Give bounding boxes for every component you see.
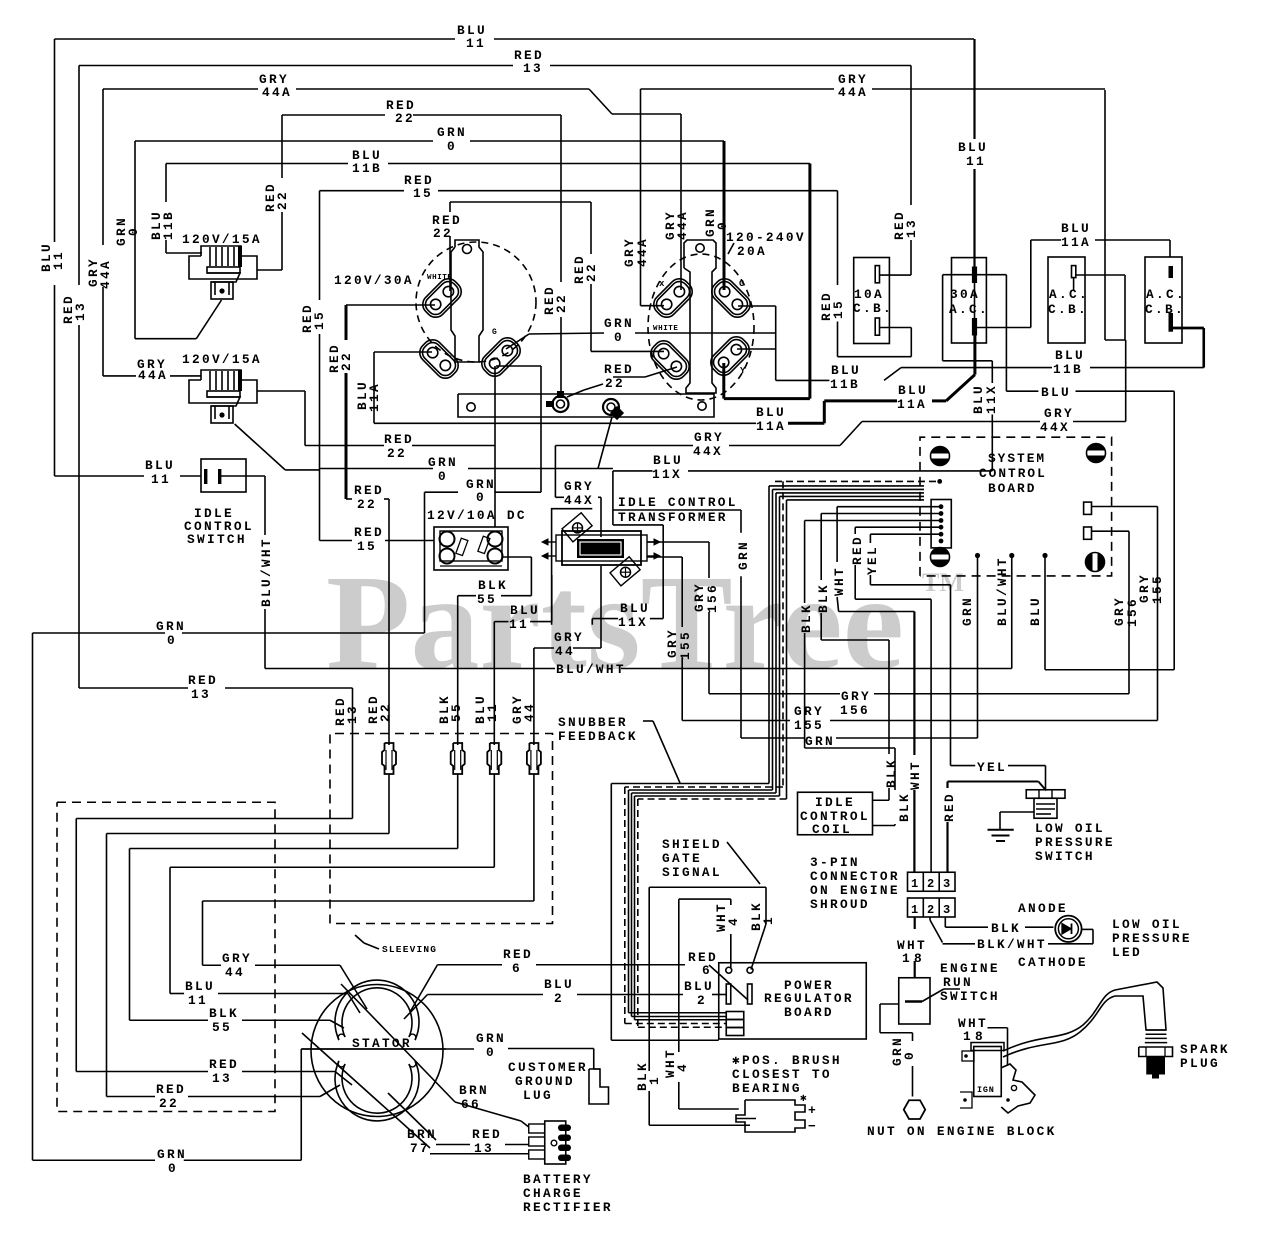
ground symbol [988, 829, 1014, 831]
wire CB2 out to BLU 11A riser [976, 327, 1031, 329]
svg-text:BLK: BLK [884, 758, 899, 788]
svg-text:BLU: BLU [831, 363, 861, 378]
svg-text:SWITCH: SWITCH [187, 532, 247, 547]
svg-text:GRN: GRN [156, 619, 186, 634]
svg-text:+: + [808, 1103, 816, 1118]
svg-text:SWITCH: SWITCH [1035, 849, 1095, 864]
svg-text:BLU: BLU [620, 601, 650, 616]
3-pin connector row2 [908, 898, 956, 917]
wire GRN 0 top bus [135, 140, 433, 142]
receptacle 120/240 mounting hole [696, 244, 704, 252]
svg-text:CLOSEST TO: CLOSEST TO [732, 1067, 832, 1082]
svg-text:GRY: GRY [841, 689, 871, 704]
svg-text:SHROUD: SHROUD [810, 897, 870, 912]
system control board dashed outline [920, 437, 1112, 576]
receptacle 120/240V dashed circle [648, 254, 754, 400]
svg-text:55: 55 [477, 592, 497, 607]
bar screw right [698, 402, 706, 410]
svg-text:RED: RED [354, 483, 384, 498]
wire RED 13 left drop to bundle [79, 687, 188, 689]
svg-text:1: 1 [902, 951, 912, 966]
board pin square GRY155 [1084, 502, 1092, 514]
svg-text:SWITCH: SWITCH [940, 989, 1000, 1004]
svg-text:11: 11 [485, 702, 500, 722]
wire RED 22 white-slot upper [449, 202, 451, 212]
svg-text:BLU: BLU [1061, 221, 1091, 236]
svg-text:C.B.: C.B. [853, 301, 893, 316]
wire Y blade thick drop [722, 363, 725, 399]
svg-text:BLU: BLU [756, 405, 786, 420]
wire GRY 155 from transformer [647, 556, 682, 558]
svg-text:LED: LED [1112, 945, 1142, 960]
snubber bundle horizontals to left [611, 783, 769, 785]
receptacle 120/240 X slot [650, 275, 697, 322]
low oil pressure switch [1026, 790, 1065, 799]
svg-text:CATHODE: CATHODE [1018, 955, 1088, 970]
svg-text:13: 13 [191, 687, 211, 702]
wire BLU 2 [428, 994, 544, 996]
wire GRY 44X to transformer [554, 446, 556, 498]
svg-text:RED: RED [188, 673, 218, 688]
wire RED 13 into stator [76, 1071, 208, 1073]
wire WHT 4 brush wire [678, 899, 680, 1052]
svg-text:0: 0 [126, 226, 141, 236]
svg-text:30A: 30A [950, 287, 980, 302]
wire BLU 11A top link [1031, 239, 1061, 241]
svg-text:11: 11 [966, 154, 986, 169]
svg-text:44A: 44A [675, 210, 690, 240]
svg-text:44A: 44A [635, 237, 650, 267]
idle control coil box [798, 792, 873, 835]
svg-text:0: 0 [447, 139, 457, 154]
svg-text:3: 3 [943, 903, 950, 917]
wire GRN 0 from G slot diagonal [506, 334, 529, 349]
breaker CB2 30A A.C. box [952, 258, 987, 343]
wire RED 15 under CB1 [837, 191, 839, 285]
wire RED 22 stud drop [560, 115, 562, 282]
board 4-pin connector block [726, 1012, 744, 1020]
svg-text:BLK: BLK [816, 583, 831, 613]
svg-text:44X: 44X [693, 444, 723, 459]
svg-text:22: 22 [378, 702, 393, 722]
wire BLU 11 G-slot drop [494, 366, 496, 446]
svg-text:A.C.: A.C. [949, 302, 989, 317]
wire BLU11 through CB2 [973, 39, 975, 139]
leader RED 22 stud1 [567, 390, 584, 397]
wire CB3 out right [1076, 274, 1125, 276]
svg-text:GRY: GRY [554, 630, 584, 645]
stator dashed box [57, 802, 275, 1111]
connector J2 120V/15A lower [189, 370, 257, 403]
receptacle 30A WHITE slot [419, 275, 466, 322]
board screw top-right [1087, 444, 1106, 463]
brush assembly [736, 1100, 805, 1132]
svg-text:0: 0 [486, 1045, 496, 1060]
stud terminal 2 [603, 399, 619, 415]
svg-text:155: 155 [794, 718, 824, 733]
transformer pins left [548, 541, 556, 543]
svg-text:BLU: BLU [185, 979, 215, 994]
svg-text:BLU: BLU [1055, 348, 1085, 363]
svg-text:0: 0 [715, 220, 730, 230]
transformer ear top-left [562, 513, 592, 542]
svg-text:RED: RED [384, 432, 414, 447]
wire BLU 11A long line [640, 422, 756, 424]
wire WHT from pin1 [837, 506, 941, 508]
wire WHT 18 from connector [914, 917, 916, 929]
bullet connector BLU11 [487, 743, 501, 774]
stud terminal 1 [553, 396, 569, 412]
wire BLU 11A from X blade [374, 351, 432, 353]
svg-text:2: 2 [927, 877, 934, 891]
svg-text:YEL: YEL [865, 545, 880, 575]
svg-text:22: 22 [554, 293, 569, 313]
svg-text:ANODE: ANODE [1018, 901, 1068, 916]
svg-text:CONNECTOR: CONNECTOR [810, 869, 900, 884]
wire BLU 11 into stator [170, 993, 184, 995]
wire BLU line to right [1006, 390, 1038, 392]
nut on engine block [904, 1100, 925, 1119]
wire stud2 to GRN bus diagonal [598, 417, 612, 469]
svg-text:G: G [739, 279, 744, 289]
svg-text:0: 0 [438, 469, 448, 484]
wire GRY 44A into connector J2 [103, 375, 136, 377]
transformer ear bottom-right [610, 557, 640, 586]
svg-text:2: 2 [927, 903, 934, 917]
bullet connector RED22 [382, 743, 396, 774]
svg-text:RED: RED [472, 1127, 502, 1142]
svg-text:BATTERY: BATTERY [523, 1172, 593, 1187]
engine run switch box [899, 978, 930, 1024]
connector J1 120V/15A upper [189, 246, 257, 279]
svg-text:SIGNAL: SIGNAL [662, 865, 722, 880]
svg-text:55: 55 [449, 702, 464, 722]
svg-text:A.C.: A.C. [1146, 287, 1186, 302]
svg-text:BLU: BLU [684, 979, 714, 994]
transformer pins right [647, 541, 654, 543]
svg-text:11B: 11B [1053, 362, 1083, 377]
svg-text:RUN: RUN [943, 975, 973, 990]
svg-text:15: 15 [312, 310, 327, 330]
receptacle 120/240 WHITE slot [647, 337, 694, 384]
wire WHT 4 inner link [679, 898, 731, 900]
receptacle 30A body [451, 240, 483, 362]
svg-text:11A: 11A [897, 397, 927, 412]
svg-text:TM: TM [922, 568, 964, 597]
wire J2 right to RED 22 [257, 390, 305, 392]
wire WHT 4 drop [730, 899, 732, 905]
svg-text:11X: 11X [652, 467, 682, 482]
wire GRN 0 lower-left loop [424, 492, 426, 633]
svg-text:1: 1 [911, 877, 918, 891]
receptacle 30A mounting hole top [463, 245, 472, 254]
shield gate signal leader [727, 842, 760, 884]
LED low oil pressure [1055, 916, 1081, 942]
svg-text:6: 6 [702, 963, 712, 978]
wire J2 ground diagonal to GRN bus [235, 424, 286, 470]
wire BLK from pin3 [805, 520, 941, 522]
wire BLK 1 drop [765, 887, 767, 924]
svg-text:4: 4 [675, 1062, 690, 1072]
svg-text:55: 55 [212, 1020, 232, 1035]
svg-text:BLU: BLU [958, 140, 988, 155]
wire GRY 44X mid [729, 445, 840, 447]
svg-text:120V/15A: 120V/15A [182, 352, 262, 367]
wire GRY 44 into stator [203, 964, 222, 966]
svg-text:GRY: GRY [694, 430, 724, 445]
breaker CB3 A.C. C.B. box [1048, 257, 1085, 343]
svg-text:IDLE CONTROL: IDLE CONTROL [618, 495, 738, 510]
svg-text:C.B.: C.B. [1048, 302, 1088, 317]
svg-text:2: 2 [697, 993, 707, 1008]
idle control transformer outer box [552, 509, 593, 625]
svg-text:77: 77 [410, 1141, 430, 1156]
svg-text:SHIELD: SHIELD [662, 837, 722, 852]
svg-text:44A: 44A [98, 259, 113, 289]
wire BLU 11B to right breaker [1202, 328, 1205, 368]
svg-text:FEEDBACK: FEEDBACK [558, 729, 638, 744]
svg-text:GRN: GRN [428, 455, 458, 470]
wire run switch to ign coil [988, 1027, 1008, 1029]
wire GRN 0 G-slot lower loop [496, 365, 541, 367]
board 6-pin connector [931, 500, 951, 548]
wire RED 6 [438, 964, 503, 966]
svg-text:RED: RED [209, 1057, 239, 1072]
wire BLK 55 from DC [502, 556, 531, 558]
svg-text:22: 22 [605, 376, 625, 391]
connector 12V/10A DC receptacle [434, 527, 508, 570]
wire BLU board pin drop [1044, 556, 1046, 670]
svg-text:CUSTOMER: CUSTOMER [508, 1060, 588, 1075]
svg-text:13: 13 [212, 1071, 232, 1086]
svg-text:156: 156 [840, 703, 870, 718]
wire BLU 11 bullet to bundle [493, 774, 495, 867]
svg-text:YEL: YEL [977, 760, 1007, 775]
svg-text:11: 11 [509, 617, 529, 632]
wire Y blade jumper thin [737, 348, 776, 350]
svg-text:A.C.: A.C. [1049, 287, 1089, 302]
svg-text:15: 15 [831, 299, 846, 319]
spark plug thread [1146, 1057, 1165, 1075]
svg-text:1: 1 [761, 915, 776, 925]
svg-text:COIL: COIL [812, 822, 852, 837]
svg-text:PLUG: PLUG [1180, 1056, 1220, 1071]
wire RED 22 bullet to bundle [388, 774, 390, 834]
svg-text:6: 6 [512, 961, 522, 976]
svg-text:BRN: BRN [407, 1127, 437, 1142]
svg-text:IGN: IGN [977, 1085, 995, 1095]
spark plug hex [1139, 1047, 1173, 1057]
wire RED 13 into CB1 [910, 66, 912, 206]
svg-text:GRN: GRN [437, 125, 467, 140]
bullet connector BLK55 [451, 743, 465, 774]
svg-text:2: 2 [554, 991, 564, 1006]
svg-text:156: 156 [705, 583, 720, 613]
receptacle 30A G slot [478, 334, 525, 381]
wire WHT 18 right [944, 988, 960, 990]
svg-text:G: G [492, 328, 497, 337]
wire RED to 3pin cell3 [946, 782, 948, 789]
svg-text:WHT: WHT [832, 566, 847, 596]
svg-text:BLU/WHT: BLU/WHT [995, 556, 1010, 626]
svg-text:GROUND: GROUND [515, 1074, 575, 1089]
wire GRY 44 from transformer [600, 566, 602, 648]
switch blade diagonal [922, 989, 944, 1002]
wire BLU 11 to idle switch [55, 475, 145, 477]
svg-text:LOW OIL: LOW OIL [1112, 917, 1182, 932]
wire YEL to low oil switch [951, 765, 976, 767]
battery charge rectifier [529, 1124, 545, 1133]
svg-text:155: 155 [1150, 574, 1165, 604]
svg-text:4: 4 [726, 916, 741, 926]
svg-text:PRESSURE: PRESSURE [1112, 931, 1192, 946]
board prong bars [726, 984, 731, 1004]
power regulator board box [719, 963, 867, 1039]
wire BLU 11 from transformer area [551, 575, 553, 622]
wire BLK anode from connector [944, 917, 946, 921]
leader sleeving [364, 943, 379, 949]
wire run switch left to GRN 0 [880, 1003, 899, 1005]
board pin dots [975, 553, 980, 558]
svg-text:GATE: GATE [662, 851, 702, 866]
svg-text:BLU: BLU [1041, 385, 1071, 400]
svg-text:15: 15 [357, 539, 377, 554]
wire GRY 155 to board pin [1092, 506, 1158, 508]
svg-text:120V/15A: 120V/15A [182, 232, 262, 247]
svg-text:RED: RED [503, 947, 533, 962]
svg-text:3-PIN: 3-PIN [810, 855, 860, 870]
spark plug boot [1115, 982, 1166, 1030]
svg-text:GRY: GRY [794, 704, 824, 719]
svg-text:44X: 44X [564, 493, 594, 508]
board terminal circles [726, 967, 732, 973]
wire BLU 11X from transformer [612, 471, 614, 525]
svg-text:8: 8 [914, 951, 924, 966]
svg-text:−: − [808, 1119, 816, 1134]
wire GRY 44A right branch [641, 88, 835, 90]
svg-text:11B: 11B [830, 377, 860, 392]
breaker CB3 terminal [1072, 266, 1076, 278]
svg-text:BLK: BLK [478, 578, 508, 593]
stator upper winding [335, 980, 419, 1040]
wire RED 22 white-slot lower to left [346, 304, 435, 306]
board screw bottom-left [931, 548, 950, 567]
wire RED 22 bus y115 [282, 114, 385, 116]
svg-text:RECTIFIER: RECTIFIER [523, 1200, 613, 1215]
svg-text:22: 22 [339, 351, 354, 371]
receptacle 120V/30A dashed circle [416, 242, 536, 362]
svg-text:44: 44 [555, 644, 575, 659]
svg-text:RED: RED [354, 525, 384, 540]
svg-text:CHARGE: CHARGE [523, 1186, 583, 1201]
svg-text:0: 0 [476, 490, 486, 505]
receptacle 30A lower-left slot [416, 336, 463, 383]
svg-text:44: 44 [522, 702, 537, 722]
wire GRY 44X right portion [1073, 421, 1126, 423]
wire GRN 0 to G blade thick [723, 141, 726, 290]
idle control switch [201, 459, 246, 492]
svg-text:BLU: BLU [1028, 596, 1043, 626]
svg-text:66: 66 [461, 1097, 481, 1112]
svg-text:11X: 11X [984, 384, 999, 414]
svg-text:3: 3 [943, 877, 950, 891]
wire BLU/WHT to board pin [1011, 556, 1013, 669]
svg-text:BEARING: BEARING [732, 1081, 802, 1096]
svg-text:156: 156 [1125, 597, 1140, 627]
wire RED 22 stud2 to white slot diagonal [613, 376, 645, 378]
breaker CB4 A.C. C.B. box right [1145, 257, 1182, 343]
wire BLU/WHT from idle switch [246, 475, 265, 477]
stator outer circle [311, 985, 443, 1117]
svg-text:0: 0 [902, 1050, 917, 1060]
wire CB1 lower terminal to RED15 [880, 327, 912, 329]
svg-text:BLK: BLK [209, 1006, 239, 1021]
svg-text:10A: 10A [854, 287, 884, 302]
svg-text:22: 22 [395, 111, 415, 126]
svg-text:120V/30A: 120V/30A [334, 273, 414, 288]
svg-text:BLK: BLK [897, 792, 912, 822]
svg-text:11: 11 [188, 993, 208, 1008]
mounting bar [458, 394, 714, 417]
svg-text:LOW OIL: LOW OIL [1035, 821, 1105, 836]
svg-text:SNUBBER: SNUBBER [558, 715, 628, 730]
svg-text:RED: RED [156, 1082, 186, 1097]
svg-text:NUT ON ENGINE BLOCK: NUT ON ENGINE BLOCK [867, 1124, 1057, 1139]
svg-text:12V/10A DC: 12V/10A DC [427, 508, 527, 523]
switch contact [905, 1000, 922, 1003]
wire RED 22 white-slot to 120-240 receptacle [590, 202, 592, 254]
bar screw left [467, 403, 475, 411]
svg-text:22: 22 [584, 262, 599, 282]
bullet connector GRY44 [527, 743, 541, 774]
svg-text:11B: 11B [352, 161, 382, 176]
wire GRN 0 stator to lug [301, 1048, 474, 1050]
wire RED 13 to rectifier [388, 1093, 436, 1140]
svg-text:11: 11 [466, 36, 486, 51]
wire GRY 44 bullet to bundle [533, 774, 535, 901]
svg-text:44: 44 [225, 965, 245, 980]
wire RED from pin4 [855, 526, 941, 528]
wire GRY 156 to board pin [1128, 531, 1130, 597]
wire BLU 11X wrap around CB2 [1005, 275, 1007, 392]
svg-text:GRY: GRY [1044, 406, 1074, 421]
svg-text:GRN: GRN [805, 734, 835, 749]
svg-text:IDLE: IDLE [815, 795, 855, 810]
stator lower winding [335, 1061, 419, 1121]
wire BLU 11B top bus [166, 163, 348, 165]
wire BLU 2 from stator [404, 995, 428, 1020]
svg-text:x: x [659, 279, 665, 289]
transformer body [562, 531, 641, 565]
svg-text:PRESSURE: PRESSURE [1035, 835, 1115, 850]
svg-text:SYSTEM: SYSTEM [988, 451, 1046, 466]
wire CB4 bottom link thick [1171, 327, 1204, 330]
wire RED 22 into stator [107, 1096, 156, 1098]
snubber bundle wires right of board [775, 480, 936, 482]
board pin square GRY156 [1084, 527, 1092, 539]
ignition coil clip [1001, 1064, 1035, 1113]
svg-text:13: 13 [523, 61, 543, 76]
svg-text:BLU/WHT: BLU/WHT [556, 662, 626, 677]
svg-text:11A: 11A [367, 382, 382, 412]
customer ground lug [589, 1069, 609, 1104]
wire RED 22 to bullet [346, 498, 352, 500]
svg-text:1: 1 [647, 1075, 662, 1085]
svg-text:22: 22 [275, 190, 290, 210]
svg-text:✱POS. BRUSH: ✱POS. BRUSH [732, 1053, 842, 1068]
svg-text:44A: 44A [138, 368, 168, 383]
spark plug ribs [1146, 1029, 1166, 1031]
